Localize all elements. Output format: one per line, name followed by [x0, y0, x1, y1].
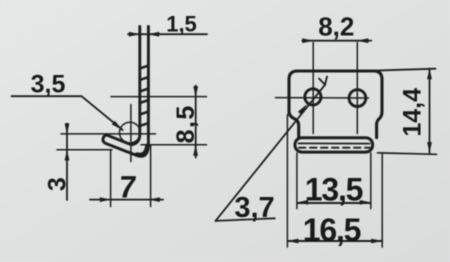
- svg-text:8,5: 8,5: [172, 104, 200, 143]
- svg-text:13,5: 13,5: [305, 172, 363, 208]
- svg-text:16,5: 16,5: [303, 212, 361, 248]
- svg-text:8,2: 8,2: [318, 11, 354, 41]
- svg-text:1,5: 1,5: [166, 11, 197, 36]
- svg-text:3,5: 3,5: [31, 71, 66, 99]
- svg-text:7: 7: [117, 170, 138, 205]
- svg-text:3,7: 3,7: [234, 192, 274, 224]
- svg-text:14,4: 14,4: [399, 88, 427, 137]
- svg-text:3: 3: [44, 177, 72, 191]
